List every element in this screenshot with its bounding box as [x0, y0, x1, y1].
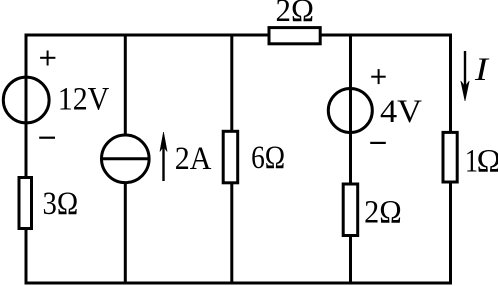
label - of 4V: [370, 142, 386, 144]
voltage source 4V: [328, 89, 372, 133]
svg-text:2Ω: 2Ω: [364, 194, 402, 230]
arrow for 2A current direction: [160, 132, 167, 181]
svg-text:3Ω: 3Ω: [43, 184, 79, 221]
wire 2A branch bottom segment: [124, 182, 127, 283]
resistor 1ohm: [443, 132, 457, 182]
svg-text:4V: 4V: [380, 94, 422, 130]
svg-text:2A: 2A: [175, 140, 212, 177]
wire 4V branch: [349, 35, 352, 283]
current source 2A: [102, 135, 150, 183]
wire 2A branch top segment: [124, 35, 127, 136]
resistor 2ohm bottom: [343, 184, 358, 236]
wire 6ohm branch: [230, 35, 233, 283]
label - of 12V: [39, 137, 55, 139]
wire outer loop: [26, 35, 451, 283]
resistor 2ohm top: [269, 28, 320, 44]
resistor 3ohm: [19, 178, 32, 229]
svg-text:2Ω: 2Ω: [276, 0, 314, 28]
svg-text:I: I: [474, 50, 490, 87]
resistor 6ohm: [223, 131, 238, 183]
svg-text:Ω: Ω: [477, 144, 498, 180]
arrow for current I: [461, 51, 469, 101]
label + of 4V: [371, 69, 386, 84]
voltage source 12V: [3, 77, 49, 123]
svg-text:12V: 12V: [58, 80, 110, 117]
label + of 12V: [40, 51, 55, 66]
svg-text:6Ω: 6Ω: [251, 139, 285, 176]
